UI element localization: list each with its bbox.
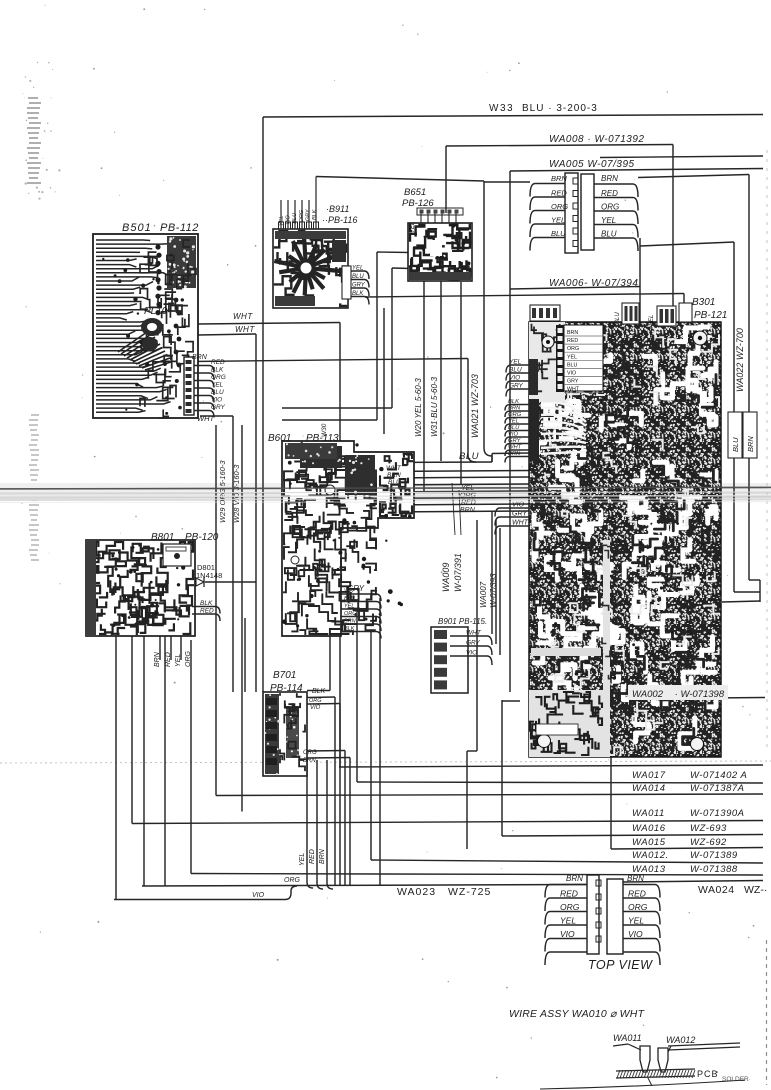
paper speckle noise xyxy=(250,167,252,169)
svg-text:GRY: GRY xyxy=(466,640,481,647)
svg-text:BRN: BRN xyxy=(508,451,521,457)
PCB B301 PB-121 (large) xyxy=(529,322,728,757)
svg-text:WA009: WA009 xyxy=(441,563,451,592)
svg-text:BRN: BRN xyxy=(508,406,521,412)
svg-text:W-071390A: W-071390A xyxy=(690,808,745,819)
faint dotted scan line y=762 xyxy=(0,761,771,763)
PCB B601 PB-113 xyxy=(282,441,414,636)
svg-text:WA008 · W-071392: WA008 · W-071392 xyxy=(549,134,644,145)
svg-text:BLU: BLU xyxy=(211,389,224,396)
svg-text:RED: RED xyxy=(601,189,618,198)
wire B801 bottom verticals xyxy=(115,636,117,900)
svg-text:BLU: BLU xyxy=(509,367,522,374)
PCB strip hatched xyxy=(616,1069,695,1071)
horizontal scan artifact band xyxy=(0,483,771,500)
scan band overlay on top xyxy=(0,487,771,489)
svg-text:WHT: WHT xyxy=(386,465,402,472)
wires YEL ORG RED BRN from B601 xyxy=(378,491,529,492)
svg-text:BRN: BRN xyxy=(567,330,578,336)
svg-text:PB-121: PB-121 xyxy=(694,310,727,321)
left margin scan smudge columns xyxy=(28,97,38,99)
svg-text:WA016: WA016 xyxy=(632,823,666,834)
wire W28 vertical x=242 xyxy=(241,425,243,812)
wire WHT1 from B501 xyxy=(198,323,340,325)
svg-text:W29 ORG 5-160-3: W29 ORG 5-160-3 xyxy=(218,460,227,523)
B301 left connector group1 YEL BLU VIO GRY xyxy=(529,359,538,395)
B301 top pin boxes xyxy=(530,305,560,321)
wire B911 bottom vertical xyxy=(383,308,385,434)
wire W33 horizontal bus xyxy=(263,115,763,118)
svg-text:BRN: BRN xyxy=(746,436,755,452)
svg-text:YEL: YEL xyxy=(508,419,519,425)
svg-text:W33: W33 xyxy=(489,103,514,114)
svg-text:GRY: GRY xyxy=(211,404,226,411)
svg-text:··PB-116: ··PB-116 xyxy=(322,215,357,225)
svg-text:W-071389: W-071389 xyxy=(690,850,738,861)
svg-text:W31·BLU 5-60-3: W31·BLU 5-60-3 xyxy=(430,376,439,437)
svg-text:WHT: WHT xyxy=(197,414,215,423)
svg-text:WHT: WHT xyxy=(233,312,253,321)
svg-text:RED: RED xyxy=(200,608,214,615)
svg-text:RED: RED xyxy=(628,889,646,899)
svg-text:BLU: BLU xyxy=(601,230,617,239)
svg-text:GRY: GRY xyxy=(352,283,366,289)
svg-text:WA012: WA012 xyxy=(666,1035,695,1045)
wire W20 YEL vertical xyxy=(423,276,425,491)
svg-text:WHT: WHT xyxy=(508,445,522,451)
svg-text:WA014: WA014 xyxy=(632,783,665,794)
svg-text:YEL: YEL xyxy=(601,216,616,225)
svg-text:YEL: YEL xyxy=(560,916,576,926)
svg-text:ORG: ORG xyxy=(560,902,580,912)
svg-text:RED: RED xyxy=(567,338,578,344)
terminal pins xyxy=(640,1046,650,1072)
svg-text:B801: B801 xyxy=(151,532,174,543)
B301 rows VIO GRY WHT xyxy=(495,508,529,517)
svg-text:BRN: BRN xyxy=(551,174,567,183)
wire W33 left vertical xyxy=(262,117,264,692)
svg-text:PB-114: PB-114 xyxy=(270,683,303,694)
wire BRN right to down xyxy=(638,175,749,178)
svg-text:VIO: VIO xyxy=(567,371,576,377)
svg-text:BLK: BLK xyxy=(352,291,364,297)
svg-text:WZ-725: WZ-725 xyxy=(448,886,491,898)
wire B651 left entry 2 xyxy=(392,267,411,270)
left rows xyxy=(545,885,587,898)
svg-text:ORG: ORG xyxy=(508,412,522,418)
svg-text:WA002: WA002 xyxy=(632,689,664,700)
svg-text:PB-112: PB-112 xyxy=(160,222,199,234)
svg-text:·B911: ·B911 xyxy=(326,204,349,214)
svg-text:BLU: BLU xyxy=(344,596,355,602)
svg-text:WHT: WHT xyxy=(235,325,255,334)
wire W29 vertical x=216 xyxy=(215,425,217,796)
wire WA005 left vertical long xyxy=(509,171,511,692)
svg-text:BLK: BLK xyxy=(211,367,224,374)
wire right bracket lower xyxy=(733,458,735,592)
svg-text:WHT: WHT xyxy=(466,630,482,637)
B501 connector rows RED..GRY xyxy=(194,366,214,373)
svg-text:YEL: YEL xyxy=(279,216,285,226)
svg-text:WA007: WA007 xyxy=(479,581,488,608)
bottom long bus lines xyxy=(339,765,763,767)
svg-text:RED: RED xyxy=(165,652,172,667)
B651 top pins xyxy=(420,212,422,223)
svg-text:B601: B601 xyxy=(268,433,291,444)
svg-text:WA024: WA024 xyxy=(698,884,735,896)
wire WA007 vertical with jog xyxy=(476,520,478,751)
svg-text:ORG: ORG xyxy=(185,651,192,668)
svg-text:W-07/393: W-07/393 xyxy=(489,573,498,608)
svg-text:RED: RED xyxy=(309,849,316,864)
wire B651 left entry 1 xyxy=(377,251,409,254)
svg-text:RED: RED xyxy=(461,500,476,507)
svg-text:ORG: ORG xyxy=(551,202,568,211)
svg-text:WZ-·: WZ-· xyxy=(744,884,767,896)
svg-text:WA023: WA023 xyxy=(397,886,436,898)
svg-text:YEL: YEL xyxy=(175,654,182,667)
svg-text:WA006- W-07/394: WA006- W-07/394 xyxy=(549,278,638,289)
svg-text:YEL: YEL xyxy=(352,266,363,272)
wires B701 bottom verticals YEL RED BRN xyxy=(307,762,313,888)
svg-text:B701: B701 xyxy=(273,670,296,681)
svg-text:W28 VIO 3-160-3: W28 VIO 3-160-3 xyxy=(232,464,241,523)
svg-text:YEL: YEL xyxy=(410,222,416,233)
svg-text:PL10: PL10 xyxy=(144,306,168,317)
svg-text:W30: W30 xyxy=(321,423,328,437)
PCB B651 PB-126 xyxy=(408,223,472,281)
wire BRN from B501 xyxy=(191,359,468,362)
wire x=461 from B651 xyxy=(460,282,462,484)
PCB B911 PB-116 xyxy=(273,229,348,308)
thick bottom bus xyxy=(142,885,587,887)
svg-text:GRY: GRY xyxy=(512,511,528,518)
svg-text:BLU: BLU xyxy=(388,479,401,486)
svg-text:B501: B501 xyxy=(122,222,152,234)
svg-text:BLU: BLU xyxy=(292,213,298,224)
wire vertical x=256 xyxy=(255,334,257,692)
svg-text:VIO: VIO xyxy=(310,705,321,711)
svg-text:YEL: YEL xyxy=(567,354,577,360)
left bar xyxy=(565,173,578,253)
svg-text:RED: RED xyxy=(211,359,225,366)
svg-text:BLK: BLK xyxy=(344,626,355,632)
svg-text:1N4148: 1N4148 xyxy=(196,571,222,580)
svg-text:· W-071398: · W-071398 xyxy=(672,689,725,700)
svg-text:VIO: VIO xyxy=(286,215,292,225)
svg-text:ORG: ORG xyxy=(628,902,648,912)
wire vertical x=468 drop to BLU xyxy=(468,359,476,463)
right rows xyxy=(623,885,660,898)
wire WA008 right vertical to B301 xyxy=(672,145,674,310)
svg-text:WZ-693: WZ-693 xyxy=(690,823,727,834)
svg-text:VIO: VIO xyxy=(560,929,575,939)
svg-text:B901 PB-115.: B901 PB-115. xyxy=(438,617,487,626)
svg-text:BLU · 3-200-3: BLU · 3-200-3 xyxy=(522,103,598,114)
wire WHT2 from B501 xyxy=(198,334,256,335)
wires WHT BRN BLU from B601 xyxy=(378,471,529,472)
svg-text:WA021 WZ-703: WA021 WZ-703 xyxy=(470,374,480,438)
svg-text:WA013: WA013 xyxy=(632,864,666,875)
svg-text:YEL: YEL xyxy=(649,315,655,326)
svg-text:WA015: WA015 xyxy=(632,837,666,848)
svg-text:ORG: ORG xyxy=(567,346,579,352)
svg-text:TOP VIEW: TOP VIEW xyxy=(588,958,653,972)
svg-text:BRN: BRN xyxy=(192,354,208,361)
svg-text:ORG: ORG xyxy=(303,750,317,756)
svg-text:PCB: PCB xyxy=(697,1069,719,1079)
wire vertical x=484 WA021 xyxy=(484,181,492,462)
PCB B501 PB-112 xyxy=(93,234,198,418)
bottom connector assembly TOP VIEW xyxy=(587,875,599,954)
svg-text:BLU: BLU xyxy=(459,451,479,462)
PCB B701 PB-114 xyxy=(263,692,307,776)
wire BLU right leg xyxy=(639,238,641,322)
svg-text:GRY: GRY xyxy=(305,209,311,221)
svg-text:VIO: VIO xyxy=(252,892,265,899)
svg-text:BLU: BLU xyxy=(731,437,740,452)
right bar xyxy=(581,174,594,250)
svg-text:BLU: BLU xyxy=(567,362,577,368)
svg-text:W-07/391: W-07/391 xyxy=(453,553,463,592)
svg-text:YEL: YEL xyxy=(628,916,644,926)
svg-text:VIO: VIO xyxy=(512,502,525,509)
svg-text:VIO: VIO xyxy=(508,432,518,438)
wire BLU B601 to B301 xyxy=(378,461,492,464)
svg-text:VIO: VIO xyxy=(344,589,354,595)
svg-text:ORG: ORG xyxy=(601,203,619,212)
wire WA005 BRN-left extension to B911 xyxy=(316,177,484,182)
svg-text:BLU: BLU xyxy=(352,274,364,280)
svg-text:BRN: BRN xyxy=(303,758,316,764)
B801 rows BLK RED xyxy=(192,607,220,614)
svg-text:ORG: ORG xyxy=(309,698,322,704)
svg-text:BRN: BRN xyxy=(566,874,583,883)
svg-text:YEL: YEL xyxy=(211,382,224,389)
svg-text:PB-120: PB-120 xyxy=(185,532,219,543)
svg-text:WIRE ASSY WA010 ⌀ WHT: WIRE ASSY WA010 ⌀ WHT xyxy=(509,1008,646,1020)
VIO line with jog xyxy=(114,886,297,900)
B911 top pins xyxy=(280,200,282,229)
wire vertical x=245 xyxy=(244,618,246,692)
B901 rows WHT GRY VIO xyxy=(450,636,492,645)
svg-text:WA005 W-07/395: WA005 W-07/395 xyxy=(549,159,635,170)
svg-text:W-071402 A: W-071402 A xyxy=(690,770,747,781)
svg-text:BRN: BRN xyxy=(387,472,401,479)
svg-text:WHT: WHT xyxy=(512,520,529,527)
svg-text:W20 YEL 5-60-3: W20 YEL 5-60-3 xyxy=(414,378,423,437)
svg-text:BRN: BRN xyxy=(154,651,161,667)
svg-text:BRN: BRN xyxy=(319,848,326,864)
left rows BRN RED ORG YEL BLU xyxy=(530,184,565,197)
svg-text:SOLDER·: SOLDER· xyxy=(722,1076,751,1083)
solder meniscus line xyxy=(540,1080,745,1089)
labels BRN BLU right boxes xyxy=(743,412,757,458)
svg-text:YEL: YEL xyxy=(299,853,306,866)
wire WA006 horizontal xyxy=(510,287,640,290)
wire vertical x=233 xyxy=(232,416,234,692)
svg-text:B301: B301 xyxy=(692,297,715,308)
svg-text:B651: B651 xyxy=(404,187,426,198)
svg-text:YEL: YEL xyxy=(344,604,354,610)
svg-text:WZ-692: WZ-692 xyxy=(690,837,727,848)
wire WA005 horizontal xyxy=(510,169,763,172)
svg-text:BRN: BRN xyxy=(627,874,644,883)
svg-text:RED: RED xyxy=(551,189,567,198)
svg-text:BLU: BLU xyxy=(551,229,566,238)
svg-text:BRN: BRN xyxy=(601,174,618,183)
svg-text:VIO: VIO xyxy=(466,650,477,657)
wire WA008 horizontal xyxy=(446,145,673,147)
wire diode to vertical xyxy=(205,581,256,583)
B911 right connector rows YEL BLU GRY BLK xyxy=(342,266,351,299)
svg-text:ORG: ORG xyxy=(299,209,305,222)
svg-text:W-071387A: W-071387A xyxy=(690,783,745,794)
wire B911 BLK row to B301 xyxy=(365,294,684,298)
svg-text:YEL: YEL xyxy=(509,359,522,366)
svg-text:ORG: ORG xyxy=(284,877,301,884)
svg-text:PB-126: PB-126 xyxy=(402,198,434,209)
svg-text:BLU: BLU xyxy=(615,312,621,324)
wires B701 right side xyxy=(307,690,330,692)
svg-text:ORG: ORG xyxy=(344,611,357,617)
B301 left connector group2 BLK..BRN xyxy=(529,399,539,461)
svg-text:BLK: BLK xyxy=(508,399,520,405)
right rows BRN RED ORG YEL BLU xyxy=(594,184,638,197)
wire vertical x=340 xyxy=(339,323,341,767)
svg-text:RED: RED xyxy=(560,889,578,899)
svg-text:BLK: BLK xyxy=(312,209,318,220)
right page edge dashed line xyxy=(766,150,768,750)
PCB B801 PB-120 xyxy=(86,540,195,636)
svg-text:VIO: VIO xyxy=(509,375,520,382)
svg-text:WHT: WHT xyxy=(567,387,580,393)
svg-text:GRY: GRY xyxy=(509,383,524,390)
svg-text:VIO: VIO xyxy=(211,397,222,404)
wire B801 label stubs xyxy=(159,636,161,660)
svg-text:WA022 WZ-700: WA022 WZ-700 xyxy=(735,328,745,392)
svg-text:ORG: ORG xyxy=(211,374,226,381)
wire W31 BLU vertical xyxy=(440,277,442,461)
svg-text:W-071388: W-071388 xyxy=(690,864,738,875)
svg-text:YEL: YEL xyxy=(551,216,565,225)
svg-text:BLK: BLK xyxy=(200,600,213,607)
svg-text:WA017: WA017 xyxy=(632,770,666,781)
wire upper-right long line xyxy=(600,156,763,158)
svg-text:BLK: BLK xyxy=(312,688,326,695)
wire B601 rows exit verticals xyxy=(370,632,372,860)
wire WA008 left vertical to B651 xyxy=(445,146,447,213)
svg-text:WA012.: WA012. xyxy=(632,850,669,861)
svg-text:GRY: GRY xyxy=(567,379,579,385)
WA002 line xyxy=(602,698,765,700)
svg-text:GRY: GRY xyxy=(508,438,521,444)
wires B901 to B301 VIO GRY WHT xyxy=(491,512,493,634)
PCB B901 PB-115 xyxy=(431,627,468,693)
svg-text:WA011: WA011 xyxy=(613,1033,642,1043)
svg-text:BRN: BRN xyxy=(344,619,356,625)
wire WA009 leader lines xyxy=(452,483,455,535)
svg-text:BLU: BLU xyxy=(508,425,520,431)
svg-text:BRN: BRN xyxy=(460,507,476,514)
svg-text:VIO: VIO xyxy=(628,929,643,939)
svg-text:WA011: WA011 xyxy=(632,808,665,819)
